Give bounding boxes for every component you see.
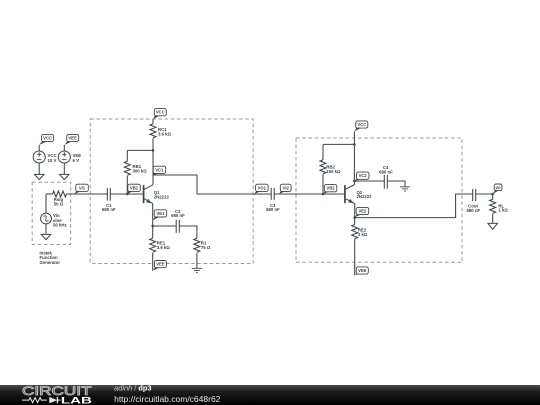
svg-text:VCC: VCC — [156, 110, 165, 115]
wire VI1 to C1 — [74, 193, 107, 195]
wire VCC to collector Q2 — [353, 131, 355, 184]
value label RB2 — [326, 164, 341, 173]
wire junction to RB2 — [323, 143, 354, 145]
flag VEE (stage 2 bottom) — [355, 267, 369, 275]
junction emitter node — [151, 225, 154, 228]
footer bar — [0, 385, 540, 405]
svg-text:300 kΩ: 300 kΩ — [133, 168, 148, 173]
svg-text:LAB: LAB — [61, 395, 92, 405]
svg-text:VI1: VI1 — [79, 185, 86, 190]
flag VI1 — [74, 184, 88, 194]
junction RC1/RB1/collector — [152, 149, 155, 152]
value label RL — [498, 203, 508, 212]
wire C4 to ground — [388, 181, 405, 187]
voltage source V1 VCC 10V — [33, 145, 45, 175]
value label Q2 — [357, 190, 373, 199]
value label V2 — [73, 153, 82, 163]
value label C3 — [266, 203, 280, 212]
wire junction to RB1 top — [127, 149, 153, 151]
resistor RB1 300k — [124, 150, 130, 194]
transistor Q2 2N2222 — [345, 185, 355, 204]
svg-text:VE2: VE2 — [358, 209, 367, 214]
svg-text:VEE: VEE — [69, 136, 78, 141]
wire VE2 to output — [355, 194, 473, 218]
junction collector node VC2 — [353, 180, 356, 183]
svg-text:3.6 kΩ: 3.6 kΩ — [157, 245, 171, 250]
flag VB2 — [323, 185, 337, 194]
svg-text:3 kΩ: 3 kΩ — [358, 232, 368, 237]
flag VE1 — [153, 210, 167, 221]
flag VC1 — [153, 166, 166, 175]
svg-text:3.6 kΩ: 3.6 kΩ — [158, 131, 172, 136]
svg-text:vo: vo — [496, 185, 501, 190]
svg-text:VE1: VE1 — [156, 211, 165, 216]
wire VC2 to C4 — [354, 180, 384, 182]
svg-text:150 kΩ: 150 kΩ — [326, 169, 341, 174]
logo wire resistor diode squiggle — [22, 397, 61, 403]
svg-text:VC1: VC1 — [155, 167, 164, 172]
svg-text:VB1: VB1 — [130, 185, 139, 190]
value label RC1 — [158, 127, 172, 136]
svg-text:VO1: VO1 — [258, 185, 267, 190]
svg-text:680 nF: 680 nF — [266, 207, 280, 212]
svg-text:680 nF: 680 nF — [466, 208, 480, 213]
svg-text:2N2222: 2N2222 — [357, 194, 373, 199]
value label RE2 — [358, 228, 368, 237]
svg-text:6 V: 6 V — [73, 158, 80, 163]
capacitor Cout 680nF — [473, 189, 476, 201]
value label C1 — [102, 203, 116, 212]
capacitor C3 680nF — [271, 188, 274, 200]
resistor RC1 3.6k — [150, 119, 156, 150]
ground earth under R1 — [192, 268, 202, 272]
junction VCC/RB2 — [353, 143, 356, 146]
flag VCC (stage 2 top) — [354, 121, 367, 131]
value label Vin — [53, 213, 67, 227]
voltage source V2 VEE 6V — [58, 145, 70, 175]
capacitor C4 680nF — [384, 175, 387, 189]
ground under V2 — [60, 174, 70, 179]
svg-text:VEE: VEE — [156, 262, 165, 267]
svg-text:VCC: VCC — [357, 122, 366, 127]
svg-text:VI2: VI2 — [283, 185, 290, 190]
svg-text:VB2: VB2 — [326, 186, 335, 191]
svg-text:Generator: Generator — [40, 260, 61, 265]
svg-text:1 kΩ: 1 kΩ — [498, 208, 508, 213]
flag VEE (V2) — [64, 134, 78, 145]
wire collector vertical — [152, 150, 154, 184]
resistor RL 1k — [490, 194, 496, 223]
resistor RE2 3k — [352, 218, 358, 276]
ground under RL — [488, 223, 498, 229]
wire C2 to R1 — [179, 226, 197, 238]
stage 1 dashed enclosure — [90, 119, 253, 264]
svg-text:VEE: VEE — [358, 268, 367, 273]
source Vin sine 50kHz — [41, 194, 52, 234]
flag VE2 — [355, 207, 369, 217]
junction at VB1 — [126, 193, 129, 196]
ground under Vin — [41, 234, 51, 239]
flag VB1 — [127, 184, 140, 194]
capacitor C2 680nF — [176, 220, 179, 233]
flag VI2 — [279, 184, 291, 194]
wire C1 to base node — [110, 193, 127, 195]
svg-text:VCC: VCC — [43, 136, 52, 141]
resistor RE1 3.6k — [150, 226, 156, 271]
svg-text:2N2222: 2N2222 — [154, 194, 170, 199]
svg-text:http://circuitlab.com/c648r62: http://circuitlab.com/c648r62 — [114, 394, 221, 404]
capacitor C1 680nF — [107, 188, 110, 201]
stage 2 dashed enclosure — [296, 138, 462, 262]
svg-text:VC2: VC2 — [359, 173, 368, 178]
flag vo — [493, 184, 502, 194]
function generator dashed enclosure — [32, 182, 70, 244]
svg-text:adinh / dp3: adinh / dp3 — [114, 383, 151, 392]
svg-text:50 Ω: 50 Ω — [54, 202, 64, 207]
wire C3 to stage 2 base node — [274, 193, 323, 195]
wire emitter Q2 vertical — [354, 204, 356, 218]
wire base node to Q2 base — [323, 193, 345, 195]
ground under V1 — [34, 174, 44, 179]
footer url — [114, 394, 221, 404]
wire emitter vertical — [152, 204, 154, 226]
svg-text:50 kHz: 50 kHz — [53, 222, 67, 227]
flag VEE (stage 1 bottom) — [153, 261, 167, 271]
resistor Rsig 50 ohm — [46, 191, 74, 197]
flag VO1 — [254, 184, 268, 194]
flag VC2 — [354, 172, 369, 181]
value label Cout — [466, 203, 480, 212]
footer title adinh / dp3 — [114, 383, 151, 392]
value label C4 — [379, 165, 393, 174]
svg-text:10 V: 10 V — [48, 158, 57, 163]
value label Rsig — [54, 197, 64, 207]
text Instek Function Generator — [40, 250, 61, 265]
logo CIRCUIT — [22, 386, 92, 398]
flag VCC (stage 1 top) — [153, 109, 166, 120]
svg-text:680 nF: 680 nF — [102, 207, 116, 212]
resistor RB2 150k — [320, 144, 326, 194]
wire base node to Q1 base — [127, 193, 143, 195]
wire VC1 to interstage — [153, 175, 271, 194]
ground earth at C4 — [400, 187, 410, 191]
logo LAB — [61, 395, 92, 405]
wire Cout to vo node — [476, 193, 493, 195]
svg-text:680 nF: 680 nF — [379, 169, 393, 174]
svg-text:680 nF: 680 nF — [171, 213, 185, 218]
value label C2 — [171, 209, 185, 218]
wire emitter to C2 — [153, 225, 176, 227]
junction at VB2 — [322, 193, 325, 196]
transistor Q1 2N2222 — [144, 185, 153, 204]
flag VCC (V1) — [39, 134, 53, 145]
junction vo node — [491, 193, 494, 196]
junction emitter node Q2 — [353, 216, 356, 219]
value label V1 — [48, 153, 57, 163]
value label RB1 — [133, 164, 148, 173]
resistor R1 75 ohm — [194, 238, 200, 268]
value label RE1 — [157, 241, 171, 250]
value label Q1 — [154, 190, 170, 199]
value label R1 — [201, 241, 211, 250]
svg-text:75 Ω: 75 Ω — [201, 245, 211, 250]
